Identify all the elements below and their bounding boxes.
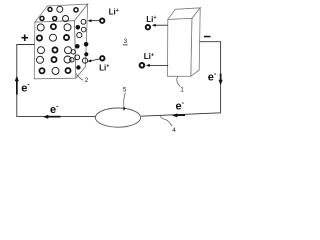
electrode 1 (right box) right face (191, 8, 200, 76)
Li+ arrow into left box (91, 20, 100, 22)
wire left (positive lead) (17, 45, 97, 117)
svg-text:4: 4 (172, 127, 176, 134)
svg-text:1: 1 (180, 87, 184, 94)
label 5 leader line (124, 93, 126, 108)
electrode 2 (left box) front face (34, 21, 76, 79)
label 4 leader line (161, 116, 173, 127)
front face lattice circles row 5 (39, 67, 70, 74)
label 1 leader line (177, 76, 180, 86)
Li+ arrow out of right box (155, 24, 168, 26)
Li+ ion mid-left (near positive electrode side) (100, 56, 104, 60)
label 5 leader arrowhead (123, 107, 126, 111)
label 2 leader line (76, 74, 83, 81)
Li+ ion upper-middle (leaving negative electrode) (146, 25, 150, 29)
load ellipse 5 (95, 108, 140, 127)
electrode 2 (left box) top face (35, 4, 88, 22)
svg-text:2: 2 (85, 77, 89, 84)
front face lattice circles row 3 (38, 47, 72, 54)
Li+ arrow out of right box lower (149, 64, 168, 66)
right face lattice circles (open) (70, 19, 88, 63)
electrode 1 (right box) front face (168, 18, 192, 76)
front face lattice circles row 2 (37, 34, 69, 41)
minus terminal sign (204, 36, 211, 38)
electrode 1 (right box) top face (168, 8, 200, 20)
Li+ ion top-left (near positive electrode top) (100, 19, 104, 23)
front face lattice circles row 1 (37, 24, 71, 31)
front face lattice circles row 4 (37, 56, 72, 63)
plus terminal sign (22, 35, 29, 42)
electron arrow up on left wire (15, 76, 19, 95)
electron arrow down on right wire (219, 74, 223, 86)
svg-text:3: 3 (124, 38, 128, 45)
wire right (negative lead) (141, 42, 221, 117)
top face lattice circles (40, 6, 78, 21)
electron arrow left on bottom-left wire (43, 115, 61, 119)
Li+ ion lower-middle (leaving negative electrode) (140, 63, 145, 68)
electron arrow left on bottom-right wire (172, 113, 185, 117)
electrode 2 (left box) right face (74, 4, 87, 78)
svg-text:5: 5 (123, 87, 127, 94)
Li+ arrow into lattice site (90, 59, 99, 61)
right face lattice circles (filled li sites) (75, 25, 88, 70)
